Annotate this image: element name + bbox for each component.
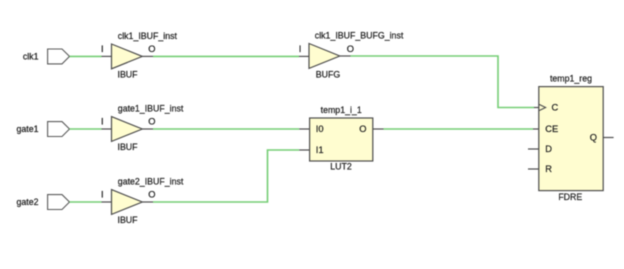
svg-text:gate2_IBUF_inst: gate2_IBUF_inst [118, 177, 184, 187]
wire stub O of gate1_IBUF_inst [142, 128, 153, 130]
svg-text:FDRE: FDRE [558, 192, 582, 202]
buffer gate1_IBUF_inst [112, 117, 143, 142]
wire stub C of temp1_reg [534, 107, 539, 109]
input port clk1 [48, 49, 70, 64]
wire gate2_IBUF to LUT2 I1 [153, 150, 299, 202]
wire stub I of clk1_IBUF_BUFG_inst [299, 55, 309, 57]
wire stub I of clk1_IBUF_inst [102, 55, 112, 57]
svg-text:I: I [299, 44, 302, 54]
input port gate2 [48, 195, 70, 210]
svg-text:I0: I0 [316, 124, 324, 134]
wire stub I of gate1_IBUF_inst [102, 128, 112, 130]
svg-text:O: O [148, 44, 155, 54]
svg-text:temp1_reg: temp1_reg [550, 73, 592, 83]
svg-text:R: R [545, 164, 552, 174]
buffer gate2_IBUF_inst [112, 190, 143, 215]
svg-text:C: C [552, 103, 559, 113]
wire stub O of clk1_IBUF_BUFG_inst [340, 55, 351, 57]
wire clk1 to IBUF [70, 55, 102, 57]
svg-text:O: O [148, 117, 155, 127]
wire stub I of gate2_IBUF_inst [102, 201, 112, 203]
wire BUFG output to FDRE C [351, 56, 535, 108]
svg-text:BUFG: BUFG [316, 69, 341, 79]
wire gate1 to IBUF [70, 128, 102, 130]
wire stub I0 of temp1_i_1 [299, 128, 309, 130]
LUT temp1_i_1 [310, 118, 373, 161]
svg-text:LUT2: LUT2 [330, 162, 352, 172]
svg-text:D: D [545, 144, 552, 154]
svg-text:IBUF: IBUF [118, 142, 139, 152]
svg-text:IBUF: IBUF [118, 215, 139, 225]
wire gate2 to IBUF [70, 201, 102, 203]
svg-text:temp1_i_1: temp1_i_1 [321, 105, 362, 115]
svg-text:O: O [148, 190, 155, 200]
svg-text:CE: CE [545, 124, 558, 134]
svg-text:I: I [101, 117, 104, 127]
svg-text:clk1_IBUF_inst: clk1_IBUF_inst [118, 31, 178, 41]
wire stub O of clk1_IBUF_inst [142, 55, 153, 57]
svg-text:clk1: clk1 [23, 51, 39, 61]
clock marker C of temp1_reg [539, 104, 546, 110]
svg-text:clk1_IBUF_BUFG_inst: clk1_IBUF_BUFG_inst [315, 30, 404, 40]
wire stub R of temp1_reg [528, 168, 539, 170]
input port gate1 [48, 122, 70, 137]
wire stub Q of temp1_reg [603, 137, 613, 139]
wire clk1_IBUF to BUFG [153, 55, 299, 57]
svg-text:I1: I1 [316, 145, 324, 155]
svg-text:gate2: gate2 [16, 197, 38, 207]
svg-text:I: I [101, 44, 104, 54]
svg-text:O: O [359, 124, 366, 134]
wire stub CE of temp1_reg [533, 128, 539, 130]
svg-text:I: I [101, 190, 104, 200]
wire stub I1 of temp1_i_1 [299, 149, 309, 151]
wire stub O of gate2_IBUF_inst [142, 201, 153, 203]
wire stub D of temp1_reg [528, 148, 539, 150]
svg-text:O: O [347, 44, 354, 54]
svg-text:Q: Q [590, 133, 597, 143]
svg-text:IBUF: IBUF [118, 69, 139, 79]
svg-text:gate1: gate1 [16, 124, 38, 134]
svg-text:gate1_IBUF_inst: gate1_IBUF_inst [118, 104, 184, 114]
wire stub O of temp1_i_1 [373, 128, 384, 130]
wire LUT2 O to FDRE CE [384, 128, 534, 130]
buffer clk1_IBUF_BUFG_inst [309, 44, 340, 69]
wire gate1_IBUF to LUT2 I0 [153, 128, 299, 130]
buffer clk1_IBUF_inst [112, 44, 143, 69]
flip-flop temp1_reg [539, 87, 603, 191]
